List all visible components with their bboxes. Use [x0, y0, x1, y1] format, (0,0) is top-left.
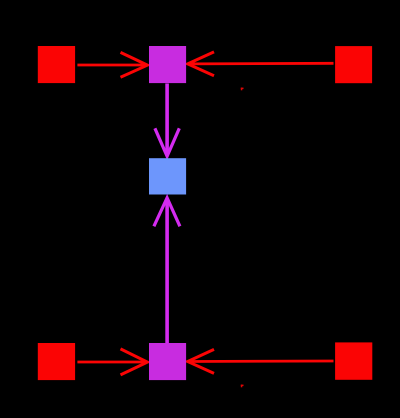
node TL (red square, top-left): [38, 46, 75, 83]
arrowhead open V at TC left: [121, 52, 148, 77]
wire edge TL to TC (red shaft): [77, 64, 146, 67]
arrowhead open V at C bottom: [154, 198, 180, 227]
arrowhead open V at C top: [155, 128, 179, 156]
arrowhead open V at BC left: [121, 349, 148, 375]
node BL (red square, bottom-left): [38, 343, 75, 380]
wire edge BL to BC (red shaft): [77, 361, 146, 364]
arrowhead open V at TC right: [188, 52, 214, 76]
wire edge TC to C (magenta shaft, downward): [165, 84, 169, 155]
node BC (magenta square, bottom-center): [149, 343, 186, 380]
arrowhead open V at BC right: [188, 349, 214, 373]
node C (blue square, center): [149, 158, 186, 194]
node BR (red square, bottom-right): [335, 342, 372, 379]
wire edge BR to BC (red shaft): [189, 360, 334, 363]
tiny red label mark near TC: [241, 88, 244, 91]
node TC (magenta square, top-center): [149, 46, 186, 83]
node TR (red square, top-right): [335, 46, 372, 83]
wire edge BC to C (magenta shaft, upward): [165, 200, 169, 343]
tiny red label mark near BC: [241, 385, 244, 388]
wire edge TR to TC (red shaft): [189, 62, 334, 65]
